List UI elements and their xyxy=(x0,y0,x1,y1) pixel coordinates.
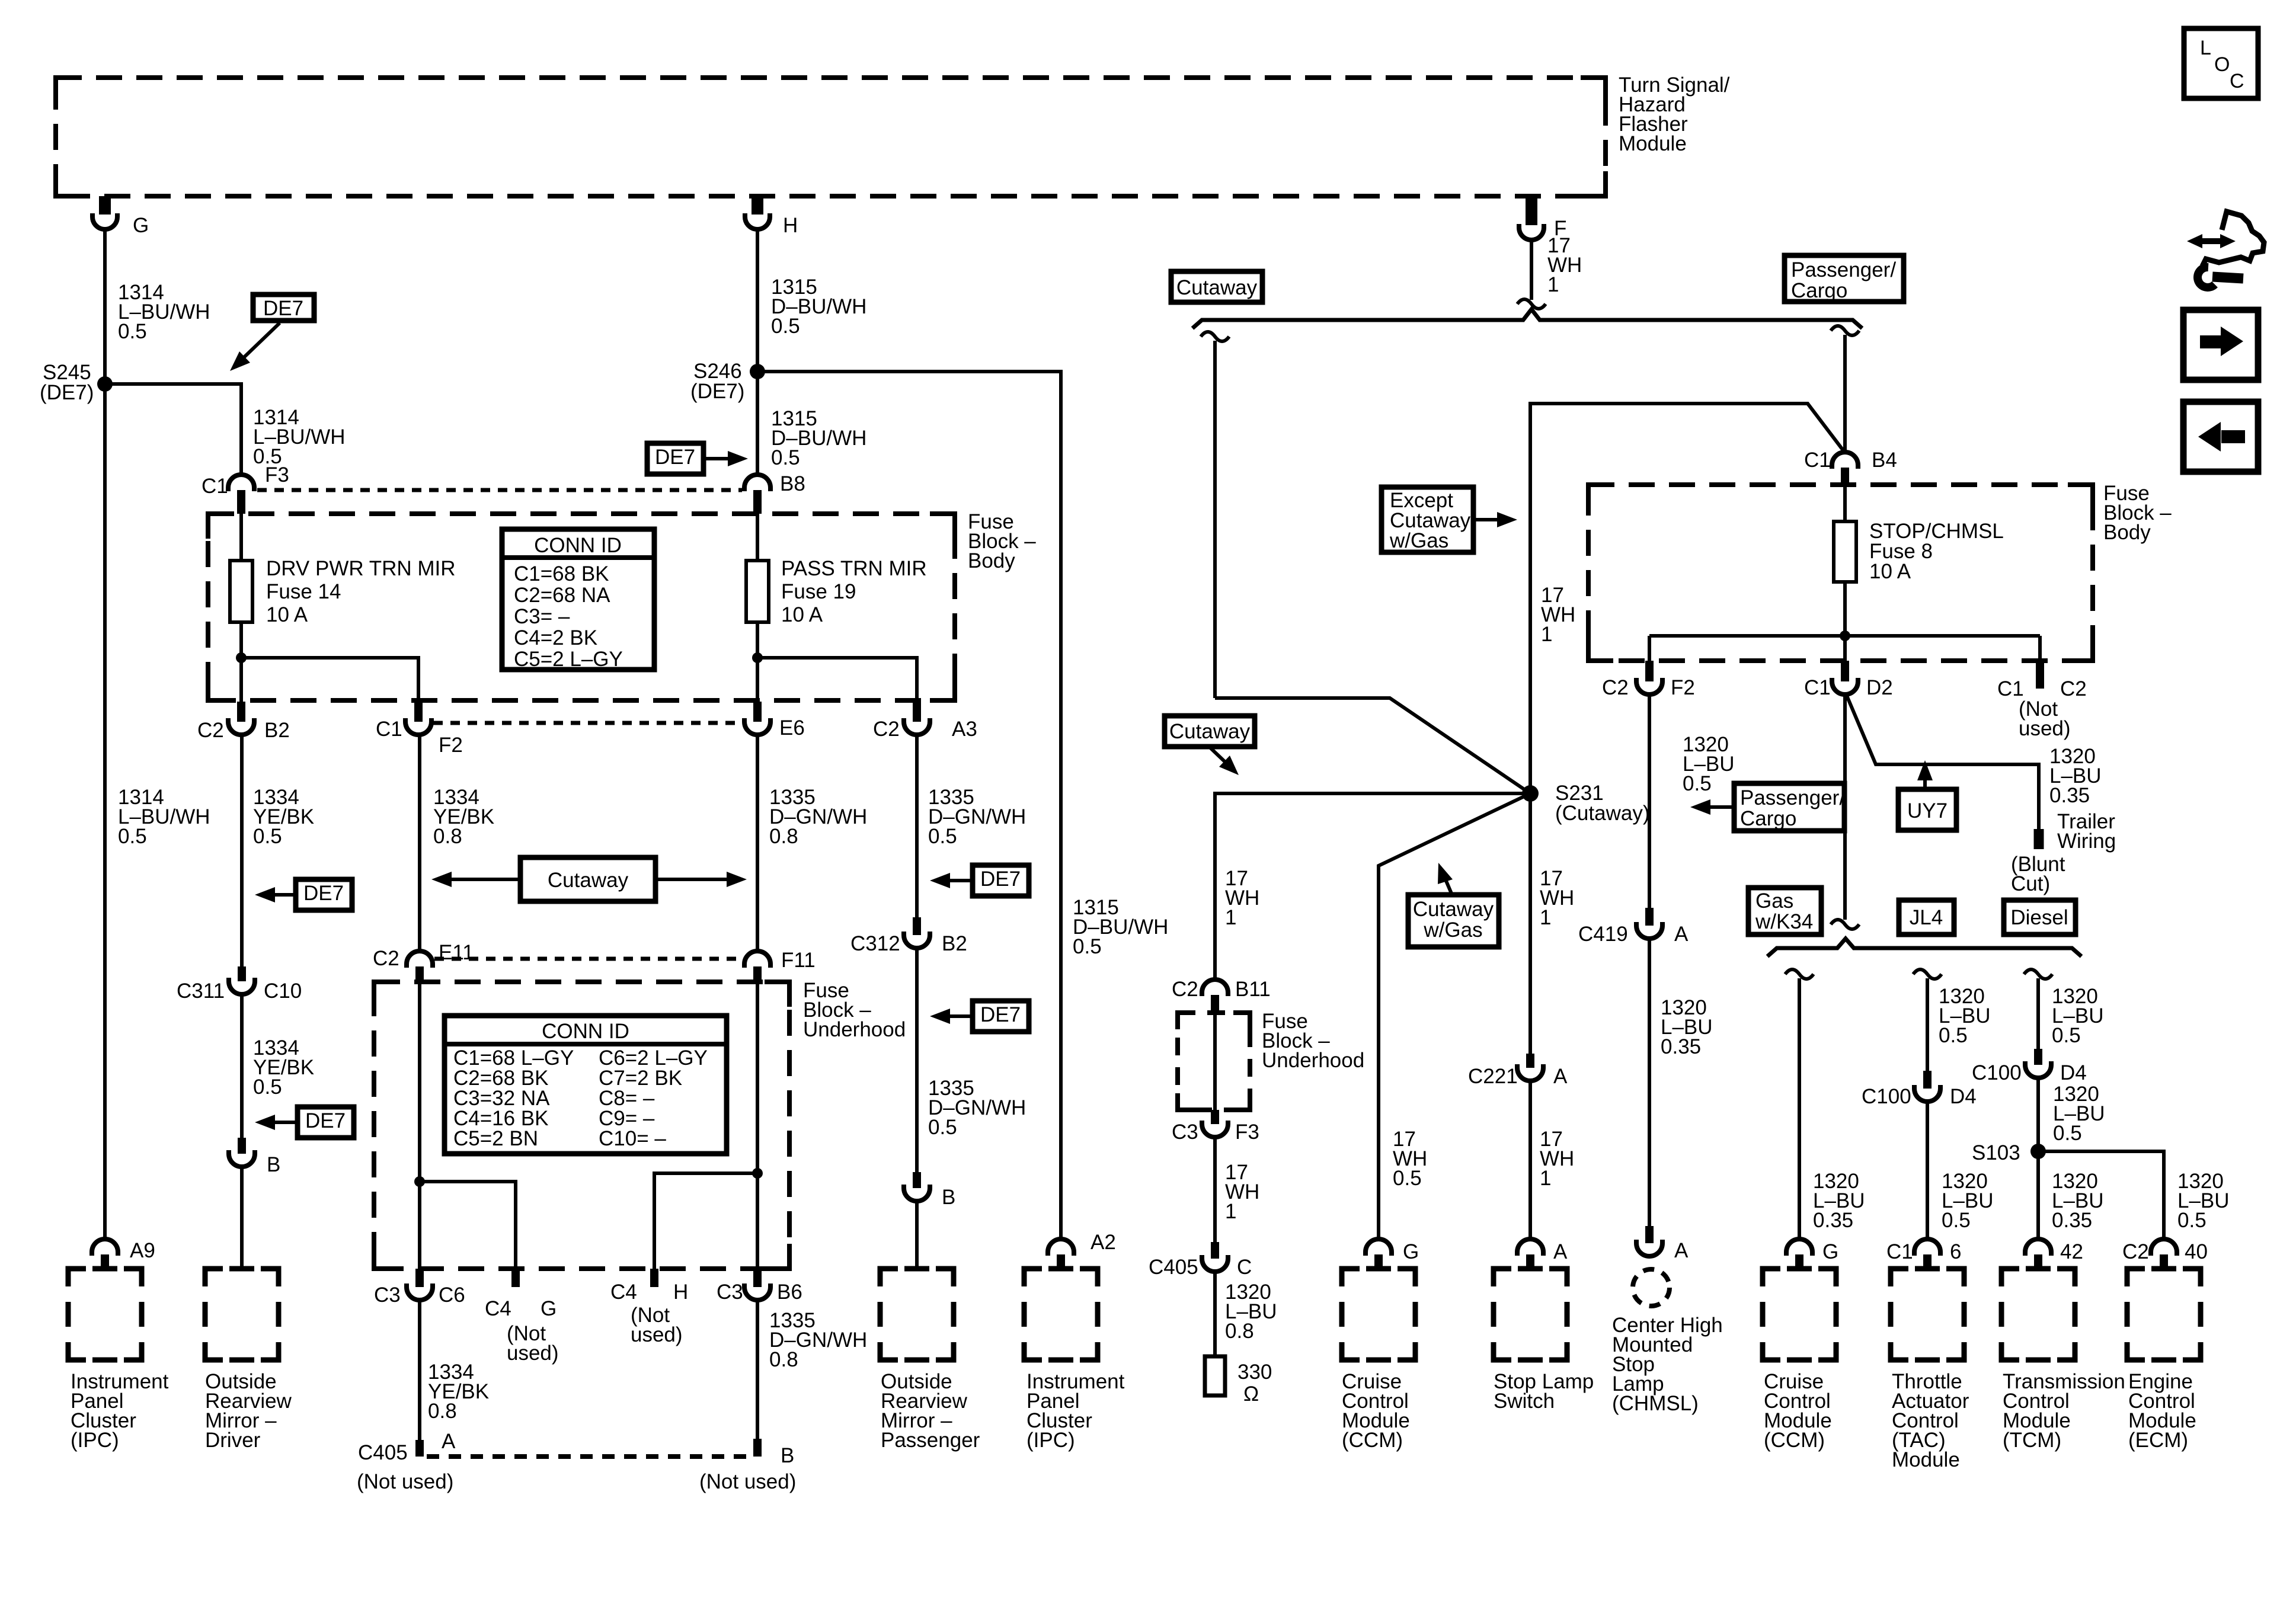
connector C100 D4 jl4 xyxy=(1923,1071,1932,1089)
svg-text:A3: A3 xyxy=(952,718,977,741)
connector C2 B11 xyxy=(1202,980,1228,996)
svg-text:10 A: 10 A xyxy=(1869,560,1911,583)
svg-text:0.8: 0.8 xyxy=(769,825,798,848)
stop lamp switch box xyxy=(1494,1269,1511,1286)
svg-text:Fuse 19: Fuse 19 xyxy=(781,580,856,603)
svg-text:Body: Body xyxy=(968,549,1015,572)
svg-text:0.5: 0.5 xyxy=(118,825,147,848)
svg-text:1: 1 xyxy=(1225,906,1236,929)
svg-text:C10: C10 xyxy=(264,980,302,1003)
svg-text:UY7: UY7 xyxy=(1907,799,1948,822)
wire D4 to TAC xyxy=(1926,1102,1929,1240)
svg-text:B2: B2 xyxy=(942,932,967,955)
svg-text:E6: E6 xyxy=(779,716,805,740)
svg-text:0.8: 0.8 xyxy=(1225,1320,1254,1343)
svg-text:C221: C221 xyxy=(1468,1065,1518,1088)
connector A9 xyxy=(92,1239,118,1256)
connector A stop lamp switch xyxy=(1517,1239,1543,1256)
svg-text:C419: C419 xyxy=(1578,923,1628,946)
svg-text:JL4: JL4 xyxy=(1910,906,1943,929)
svg-text:C2: C2 xyxy=(2060,677,2087,700)
splice S231 xyxy=(1522,785,1539,802)
svg-text:S103: S103 xyxy=(1972,1141,2020,1164)
svg-text:C1: C1 xyxy=(1804,676,1831,699)
svg-text:H: H xyxy=(673,1281,688,1304)
dotted connector line E11-F11 xyxy=(434,957,741,961)
wire junction to C2 A3 xyxy=(757,658,917,702)
connector 42 TCM xyxy=(2025,1239,2051,1256)
connector F11 xyxy=(744,951,770,968)
connector C3 F3 small xyxy=(1211,1110,1219,1124)
power mirror icon xyxy=(2194,238,2228,244)
svg-text:10 A: 10 A xyxy=(266,603,308,626)
svg-text:0.35: 0.35 xyxy=(2052,1209,2092,1232)
svg-text:CONN ID: CONN ID xyxy=(542,1020,629,1043)
svg-text:A: A xyxy=(1674,1239,1689,1262)
fuse F8 STOP/CHMSL xyxy=(1843,485,1847,521)
cutaway label box 2 xyxy=(1165,716,1255,747)
svg-text:DE7: DE7 xyxy=(655,446,695,469)
cutaway label box with arrows xyxy=(520,857,655,901)
svg-text:w/Gas: w/Gas xyxy=(1423,918,1482,942)
svg-text:Passenger/: Passenger/ xyxy=(1740,786,1845,809)
svg-text:B8: B8 xyxy=(780,472,805,495)
svg-text:C311: C311 xyxy=(177,980,225,1003)
splice S245 xyxy=(97,376,113,392)
svg-text:Cutaway: Cutaway xyxy=(1413,898,1494,921)
svg-text:Wiring: Wiring xyxy=(2057,830,2116,853)
connector C2 B2 xyxy=(237,702,245,722)
svg-text:1: 1 xyxy=(1547,273,1559,296)
svg-text:Switch: Switch xyxy=(1494,1390,1555,1413)
fuse block - underhood box xyxy=(374,982,789,1269)
svg-text:D4: D4 xyxy=(1950,1085,1977,1108)
connector B xyxy=(238,1138,246,1154)
wire F3 down xyxy=(1213,1137,1217,1242)
svg-text:L: L xyxy=(2200,37,2211,59)
connector pin F xyxy=(1526,196,1537,225)
svg-text:(Not used): (Not used) xyxy=(357,1470,453,1493)
connector C1 6 TAC xyxy=(1914,1239,1940,1256)
wire D2 to trailer xyxy=(1847,696,2039,829)
wire diesel branch xyxy=(2024,969,2052,979)
svg-text:(DE7): (DE7) xyxy=(690,380,744,403)
svg-text:Passenger/: Passenger/ xyxy=(1791,258,1896,281)
svg-text:0.5: 0.5 xyxy=(1683,772,1712,795)
svg-text:0.8: 0.8 xyxy=(769,1348,798,1371)
wire S245 to connector C1 F3 xyxy=(105,384,241,474)
engine split brace xyxy=(1767,939,2081,956)
gas w/K34 label box xyxy=(1748,888,1821,934)
svg-text:0.5: 0.5 xyxy=(928,825,957,848)
svg-text:B: B xyxy=(267,1153,280,1176)
svg-text:F3: F3 xyxy=(265,463,289,486)
svg-text:A: A xyxy=(1553,1065,1568,1088)
svg-text:C4=2 BK: C4=2 BK xyxy=(514,626,597,649)
wire 1335 from A3 xyxy=(915,734,919,917)
cutaway w/gas box xyxy=(1408,895,1499,947)
svg-text:F2: F2 xyxy=(1671,676,1695,699)
svg-text:C1: C1 xyxy=(376,718,402,741)
wire junction to E6 xyxy=(756,658,759,702)
wire fuse 14 to junction xyxy=(239,514,243,561)
connector C311 C10 xyxy=(238,966,246,981)
DE7 reference box upper xyxy=(296,879,352,910)
engine control module box xyxy=(2127,1269,2145,1286)
svg-text:C1=68 BK: C1=68 BK xyxy=(514,562,609,585)
wire B6 down xyxy=(756,1300,759,1440)
svg-text:A9: A9 xyxy=(130,1239,155,1262)
wire S231 to CCM xyxy=(1379,793,1530,1240)
junction fuse 8 output xyxy=(1840,630,1850,641)
svg-text:C3: C3 xyxy=(1172,1121,1198,1144)
svg-text:PASS TRN MIR: PASS TRN MIR xyxy=(781,557,927,580)
svg-text:(DE7): (DE7) xyxy=(40,381,94,404)
wire C6 down xyxy=(418,1300,421,1441)
passenger/cargo label box 2 xyxy=(1734,783,1844,831)
svg-text:w/K34: w/K34 xyxy=(1755,910,1813,933)
svg-text:C3: C3 xyxy=(717,1281,743,1304)
fuse F14 DRV PWR TRN MIR xyxy=(230,561,252,622)
wire gas branch to CCM2 xyxy=(1785,969,1814,979)
svg-text:0.5: 0.5 xyxy=(1073,935,1102,958)
wire 1314 pin G to S245 xyxy=(103,229,107,384)
wire F11 inside underhood xyxy=(756,982,759,1173)
outside rearview mirror driver box xyxy=(205,1269,223,1286)
svg-text:Cutaway: Cutaway xyxy=(1176,276,1258,299)
dotted connector line C2 xyxy=(433,721,743,725)
svg-text:C1: C1 xyxy=(202,475,228,498)
svg-text:0.5: 0.5 xyxy=(253,1076,282,1099)
junction E11 branch xyxy=(414,1176,425,1187)
connector C1 D2 xyxy=(1843,636,1847,661)
svg-text:Underhood: Underhood xyxy=(1262,1049,1364,1072)
svg-text:C405: C405 xyxy=(1149,1256,1198,1279)
svg-text:(CHMSL): (CHMSL) xyxy=(1612,1392,1699,1415)
connector G CCM2 xyxy=(1786,1239,1812,1256)
cruise control module box 2 xyxy=(1763,1269,1780,1286)
svg-text:(TCM): (TCM) xyxy=(2003,1429,2061,1452)
svg-text:C6: C6 xyxy=(439,1283,465,1307)
svg-text:0.5: 0.5 xyxy=(118,320,147,343)
wire S103 to ECM xyxy=(2038,1151,2164,1240)
wire D2 to engine split xyxy=(1843,694,1847,920)
svg-text:C2: C2 xyxy=(1602,676,1629,699)
svg-text:Cutaway: Cutaway xyxy=(548,869,629,892)
fuse block - body box right xyxy=(1588,485,2093,661)
svg-text:DE7: DE7 xyxy=(263,297,303,320)
svg-text:Driver: Driver xyxy=(205,1429,261,1452)
svg-text:DE7: DE7 xyxy=(980,1003,1021,1026)
svg-text:Cargo: Cargo xyxy=(1791,279,1847,302)
svg-text:0.5: 0.5 xyxy=(253,825,282,848)
svg-text:C5=2 BN: C5=2 BN xyxy=(453,1127,538,1150)
svg-text:D2: D2 xyxy=(1866,676,1893,699)
svg-text:A: A xyxy=(1674,923,1689,946)
svg-text:(IPC): (IPC) xyxy=(1027,1429,1075,1452)
svg-text:w/Gas: w/Gas xyxy=(1389,529,1448,552)
connector C312 B2 xyxy=(913,917,921,935)
svg-text:0.35: 0.35 xyxy=(2049,784,2090,807)
svg-text:A2: A2 xyxy=(1091,1231,1116,1254)
svg-text:C312: C312 xyxy=(850,932,900,955)
svg-text:C2: C2 xyxy=(373,947,399,970)
svg-text:C4: C4 xyxy=(485,1297,511,1320)
dashed connector line C405 xyxy=(427,1454,753,1459)
connector C2 E11 xyxy=(407,951,433,968)
svg-text:DE7: DE7 xyxy=(980,868,1021,891)
svg-text:(CCM): (CCM) xyxy=(1342,1429,1403,1452)
svg-text:0.5: 0.5 xyxy=(1942,1209,1971,1232)
svg-text:0.5: 0.5 xyxy=(2052,1024,2081,1047)
svg-text:0.8: 0.8 xyxy=(433,825,462,848)
svg-text:C5=2 L–GY: C5=2 L–GY xyxy=(514,648,623,671)
wire JL4 branch xyxy=(1913,969,1942,979)
svg-text:C2: C2 xyxy=(873,718,900,741)
svg-text:C2=68 NA: C2=68 NA xyxy=(514,584,610,607)
turn signal/hazard flasher module box xyxy=(56,78,1606,196)
connector C2 40 ECM xyxy=(2151,1239,2177,1256)
diesel label box xyxy=(2004,900,2076,934)
wire B to mirror passenger xyxy=(915,1201,919,1269)
wire 1334 F2 to E11 xyxy=(418,734,421,952)
wire pin H to S246 xyxy=(756,229,759,372)
wire passenger/cargo branch xyxy=(1831,326,1859,335)
svg-text:40: 40 xyxy=(2185,1240,2208,1263)
svg-text:C1: C1 xyxy=(1804,449,1831,472)
wire fuse 19 xyxy=(756,514,759,561)
svg-text:B4: B4 xyxy=(1872,449,1897,472)
transmission control module box xyxy=(2001,1269,2019,1286)
svg-text:Passenger: Passenger xyxy=(881,1429,980,1452)
svg-text:DRV PWR TRN MIR: DRV PWR TRN MIR xyxy=(266,557,456,580)
right arrow icon box xyxy=(2183,310,2258,380)
stub B not used xyxy=(753,1439,762,1457)
svg-text:F3: F3 xyxy=(1235,1121,1259,1144)
wire D4 to S103 xyxy=(2036,1078,2040,1151)
svg-text:0.35: 0.35 xyxy=(1661,1035,1701,1058)
svg-text:Diesel: Diesel xyxy=(2010,906,2068,929)
wire junction to C1 F2 xyxy=(241,658,418,702)
fuse block - body box xyxy=(208,514,955,700)
wire F2 to C419 xyxy=(1648,694,1651,908)
svg-text:0.5: 0.5 xyxy=(928,1116,957,1139)
wire to resistor xyxy=(1213,1272,1217,1356)
svg-text:C100: C100 xyxy=(1972,1061,2022,1084)
svg-text:0.5: 0.5 xyxy=(771,315,800,338)
connector C1 B4 xyxy=(1832,452,1858,469)
wire C221 down xyxy=(1528,1081,1532,1240)
svg-text:C100: C100 xyxy=(1862,1085,1911,1108)
wire stop lamp riser to B4 xyxy=(1530,404,1845,793)
svg-text:0.35: 0.35 xyxy=(1813,1209,1853,1232)
svg-text:D4: D4 xyxy=(2060,1061,2087,1084)
wire branch to C4 G xyxy=(420,1182,516,1269)
svg-text:G: G xyxy=(133,214,149,237)
svg-text:C405: C405 xyxy=(358,1441,408,1464)
fuse block - underhood box small xyxy=(1178,1013,1250,1110)
svg-text:C10= –: C10= – xyxy=(599,1127,666,1150)
wire S103 to TCM xyxy=(2036,1151,2040,1240)
svg-text:used): used) xyxy=(631,1323,683,1346)
wire C312 down xyxy=(915,948,919,1172)
wire S246 to IPC A2 xyxy=(757,372,1061,1240)
wire 1334 from B2 xyxy=(240,734,244,966)
svg-text:B: B xyxy=(781,1444,794,1467)
UY7 label box xyxy=(1898,789,1956,830)
splice S103 xyxy=(2030,1144,2046,1159)
svg-text:(CCM): (CCM) xyxy=(1764,1429,1825,1452)
svg-text:used): used) xyxy=(2019,717,2071,740)
wire C419 down xyxy=(1648,939,1651,1226)
svg-text:C: C xyxy=(2230,70,2244,92)
svg-text:G: G xyxy=(541,1297,557,1320)
svg-text:0.5: 0.5 xyxy=(771,446,800,469)
cruise control module box xyxy=(1342,1269,1360,1286)
connector C2 F2 right xyxy=(1645,661,1654,681)
junction fuse 19 output xyxy=(752,652,763,663)
connector A CHMSL xyxy=(1645,1226,1654,1243)
connector E6 xyxy=(753,702,762,722)
svg-text:Cargo: Cargo xyxy=(1740,807,1796,830)
wire C10 down xyxy=(240,994,244,1138)
svg-text:G: G xyxy=(1403,1240,1419,1263)
svg-text:B11: B11 xyxy=(1235,978,1271,1001)
svg-text:Fuse 14: Fuse 14 xyxy=(266,580,341,603)
svg-text:Underhood: Underhood xyxy=(803,1018,906,1041)
svg-text:C3= –: C3= – xyxy=(514,605,570,628)
svg-text:1: 1 xyxy=(1540,1167,1551,1190)
wire inside small underhood xyxy=(1213,1013,1217,1110)
wire branch to C4 H xyxy=(654,1173,757,1269)
svg-text:C: C xyxy=(1237,1256,1252,1279)
svg-text:A: A xyxy=(1553,1240,1568,1263)
svg-text:DE7: DE7 xyxy=(303,882,344,905)
svg-text:(ECM): (ECM) xyxy=(2128,1429,2188,1452)
svg-text:G: G xyxy=(1822,1240,1838,1263)
bus fuse 8 output xyxy=(1649,634,2040,638)
svg-text:0.8: 0.8 xyxy=(428,1400,457,1423)
svg-text:(Cutaway): (Cutaway) xyxy=(1555,802,1649,825)
instrument panel cluster box 2 xyxy=(1024,1269,1042,1286)
svg-text:C2: C2 xyxy=(2122,1240,2149,1263)
svg-text:C4: C4 xyxy=(610,1281,637,1304)
svg-text:330: 330 xyxy=(1237,1361,1272,1384)
outside rearview mirror passenger box xyxy=(880,1269,898,1286)
svg-text:O: O xyxy=(2214,53,2230,76)
wire pin F to split xyxy=(1530,240,1533,300)
wire E11 inside underhood xyxy=(418,982,421,1182)
DE7 reference box mid upper xyxy=(973,865,1029,896)
svg-text:C2: C2 xyxy=(197,719,224,742)
svg-text:42: 42 xyxy=(2060,1240,2083,1263)
connector C2 A3 xyxy=(913,702,921,722)
throttle actuator control box xyxy=(1891,1269,1908,1286)
LOC icon box xyxy=(2184,28,2258,98)
connector C419 A xyxy=(1645,908,1654,926)
wire S231 to underhood B11 xyxy=(1215,793,1530,979)
junction fuse 14 output xyxy=(236,652,247,663)
JL4 label box xyxy=(1899,900,1954,934)
svg-text:Body: Body xyxy=(2103,521,2151,544)
connector C221 A xyxy=(1526,1054,1534,1068)
connector pin H xyxy=(752,196,763,215)
svg-text:used): used) xyxy=(507,1342,559,1365)
svg-text:Module: Module xyxy=(1619,132,1687,155)
svg-text:B6: B6 xyxy=(777,1281,802,1304)
svg-text:Cutaway: Cutaway xyxy=(1169,720,1251,743)
cutaway label box xyxy=(1171,271,1262,302)
connector C100 D4 diesel xyxy=(2034,1049,2042,1065)
svg-text:0.5: 0.5 xyxy=(2177,1209,2207,1232)
connector C1 F2 xyxy=(414,702,423,722)
connector G CCM xyxy=(1366,1239,1392,1256)
svg-text:H: H xyxy=(783,214,798,237)
wire S231 to stop lamp switch xyxy=(1528,801,1532,1054)
wire B to mirror xyxy=(240,1167,244,1269)
svg-text:DE7: DE7 xyxy=(305,1109,346,1132)
svg-text:0.5: 0.5 xyxy=(2053,1122,2082,1145)
connector C405 C xyxy=(1211,1242,1219,1259)
resistor 330 ohm xyxy=(1205,1356,1225,1395)
connector C3 C6 xyxy=(418,1182,421,1269)
svg-text:B2: B2 xyxy=(264,719,290,742)
connector B8 xyxy=(744,475,770,491)
DE7 reference box with arrow xyxy=(253,295,314,321)
wire cutaway branch xyxy=(1201,332,1229,341)
CONN ID table 1 xyxy=(502,529,654,670)
stub C405 A not used xyxy=(415,1440,424,1457)
connector B passenger xyxy=(913,1172,921,1188)
instrument panel cluster box xyxy=(68,1269,86,1286)
svg-text:Cut): Cut) xyxy=(2011,872,2050,895)
CHMSL lamp dashed circle xyxy=(1633,1269,1670,1306)
connector A2 xyxy=(1048,1239,1074,1256)
svg-text:6: 6 xyxy=(1950,1240,1961,1263)
connector C1 F3 xyxy=(228,475,254,491)
wire 1335 E6 to F11 xyxy=(756,734,759,952)
dotted connector line C1 xyxy=(257,488,742,492)
left arrow icon box xyxy=(2183,402,2258,472)
svg-text:F2: F2 xyxy=(439,734,463,757)
junction F11 branch xyxy=(752,1168,763,1179)
wire S245 down to IPC xyxy=(103,384,107,1240)
svg-text:(Not used): (Not used) xyxy=(699,1470,796,1493)
svg-text:(IPC): (IPC) xyxy=(71,1429,119,1452)
svg-text:0.5: 0.5 xyxy=(1393,1167,1422,1190)
svg-text:CONN ID: CONN ID xyxy=(534,534,622,557)
DE7 reference box mid lower xyxy=(973,1001,1029,1032)
svg-text:1: 1 xyxy=(1225,1200,1236,1223)
splice S246 xyxy=(750,364,765,379)
svg-text:Ω: Ω xyxy=(1243,1382,1259,1406)
wire junction to C2 B2 xyxy=(239,658,243,702)
fuse F19 PASS TRN MIR xyxy=(746,561,769,622)
svg-text:B: B xyxy=(942,1186,955,1209)
svg-text:C3: C3 xyxy=(374,1283,401,1307)
except cutaway w/gas box xyxy=(1382,487,1473,552)
DE7 reference box lower xyxy=(298,1107,354,1138)
passenger/cargo label box xyxy=(1785,255,1904,302)
svg-text:0.5: 0.5 xyxy=(1939,1024,1968,1047)
svg-text:Gas: Gas xyxy=(1755,889,1793,913)
DE7 reference box right arrow xyxy=(647,443,703,474)
stub C1 C2 not used xyxy=(2036,661,2044,689)
split brace xyxy=(1192,309,1862,328)
svg-text:C1: C1 xyxy=(1886,1240,1913,1263)
connector pin G xyxy=(99,196,111,215)
svg-text:F11: F11 xyxy=(781,949,816,972)
